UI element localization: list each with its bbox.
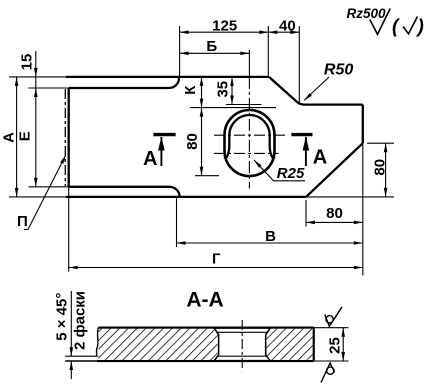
Е bottom arrow [34,178,38,187]
ext lines top [179,26,181,77]
step lower line with fillet [29,186,69,188]
Б arrows [180,52,189,56]
hole left wall + chamfers [214,328,219,361]
svg-text:5 × 45°: 5 × 45° [54,293,71,341]
svg-text:Г: Г [212,251,221,268]
svg-text:П: П [17,213,28,230]
svg-text:В: В [265,228,276,245]
svg-text:К: К [182,85,199,95]
svg-text:): ) [416,17,424,38]
section bar right edge [313,328,315,361]
R50 arrow [303,93,312,102]
R25 arrow [253,159,262,168]
hatch area right of hole (section) [267,329,313,360]
svg-text:R50: R50 [324,62,353,79]
svg-text:2 фаски: 2 фаски [72,291,89,350]
35 arrows [230,77,234,86]
svg-text:80: 80 [326,205,343,222]
tongue top line / hole bottom chamfer edge [65,355,266,357]
П leader arrow [60,154,67,164]
hole lower horizontal centerline [214,152,279,154]
5x45 dim arms [70,291,72,356]
right 80 arrows [384,143,388,152]
top edge of right portion [304,103,363,105]
bottom edge [66,196,306,198]
slot hole inner (chamfer) contour [226,115,273,159]
surface mark dash-dot line П [64,89,66,186]
5x45 arrows (outside) [70,347,74,356]
arrows [15,30,388,370]
section marker right bar [291,133,312,136]
ext line К bottom / 80 top [190,107,276,109]
(v) small check [403,17,418,34]
hole right wall + chamfers [266,328,271,361]
dim К/80 line [201,77,203,176]
25 dim [342,328,344,361]
svg-text:А: А [313,147,327,169]
hole upper horizontal centerline [214,134,287,136]
svg-text:35: 35 [215,81,232,98]
25 dim arrows [341,328,345,337]
125 dim arrows [180,30,189,34]
section bar top edge [98,327,313,329]
40 dim arrows [268,30,277,34]
ext line 35 bottom [226,104,262,106]
В dim [177,242,363,244]
main outline: top edge [9,76,66,78]
svg-text:А: А [0,132,17,143]
step upper line with fillet [29,87,69,89]
slot hole outer contour [225,110,275,176]
svg-text:А: А [143,148,157,170]
svg-text:80: 80 [371,159,388,176]
dim Б line [180,52,250,54]
svg-text:R25: R25 [277,165,305,182]
dim 15 / Е line [35,51,37,187]
section A arrows [158,137,165,151]
Г arrows [69,266,78,270]
section left end break line [96,328,98,357]
svg-text:80: 80 [184,133,201,150]
right 80 dim [385,143,387,197]
svg-text:15: 15 [18,54,35,71]
hole top chamfer edge across [217,331,269,333]
R25 leader [254,160,305,181]
left edge [68,88,70,187]
dim 35 line [231,77,233,105]
bottom 80 dim [306,221,363,223]
section marker left bar [153,133,175,136]
surface symbol top (circle-check) on section [325,307,342,326]
hatch area left of hole (section) [99,329,218,360]
15 arrows (outside) [34,68,38,77]
slant top-right with R50 fillet [269,77,304,105]
svg-text:А-А: А-А [186,289,223,312]
surface symbol bottom (circle-check, rotated) [321,363,335,383]
svg-text:25: 25 [327,337,344,354]
svg-text:Rz500: Rz500 [347,6,387,21]
Rz500 check symbol [370,9,418,35]
R50 leader [304,77,329,101]
svg-text:Е: Е [16,131,33,141]
dim А line [16,77,18,197]
К dim arrows [200,77,204,86]
right edge [362,105,364,144]
svg-text:Б: Б [206,38,217,55]
bottom-right chamfer [306,143,363,197]
svg-text:125: 125 [212,18,237,35]
svg-text:40: 40 [279,18,296,35]
А dim arrows [15,77,19,86]
section bar bottom edge [65,360,97,362]
section centerline [241,320,243,371]
В arrows [177,241,186,245]
ext line 80 bottom [195,175,219,177]
80 left dim arrows [200,108,204,117]
П leader [24,155,66,230]
bottom 80 arrows [306,221,315,225]
hole vertical centerline [248,50,250,77]
dim 125/40 line [180,31,300,33]
Г dim [69,267,363,269]
